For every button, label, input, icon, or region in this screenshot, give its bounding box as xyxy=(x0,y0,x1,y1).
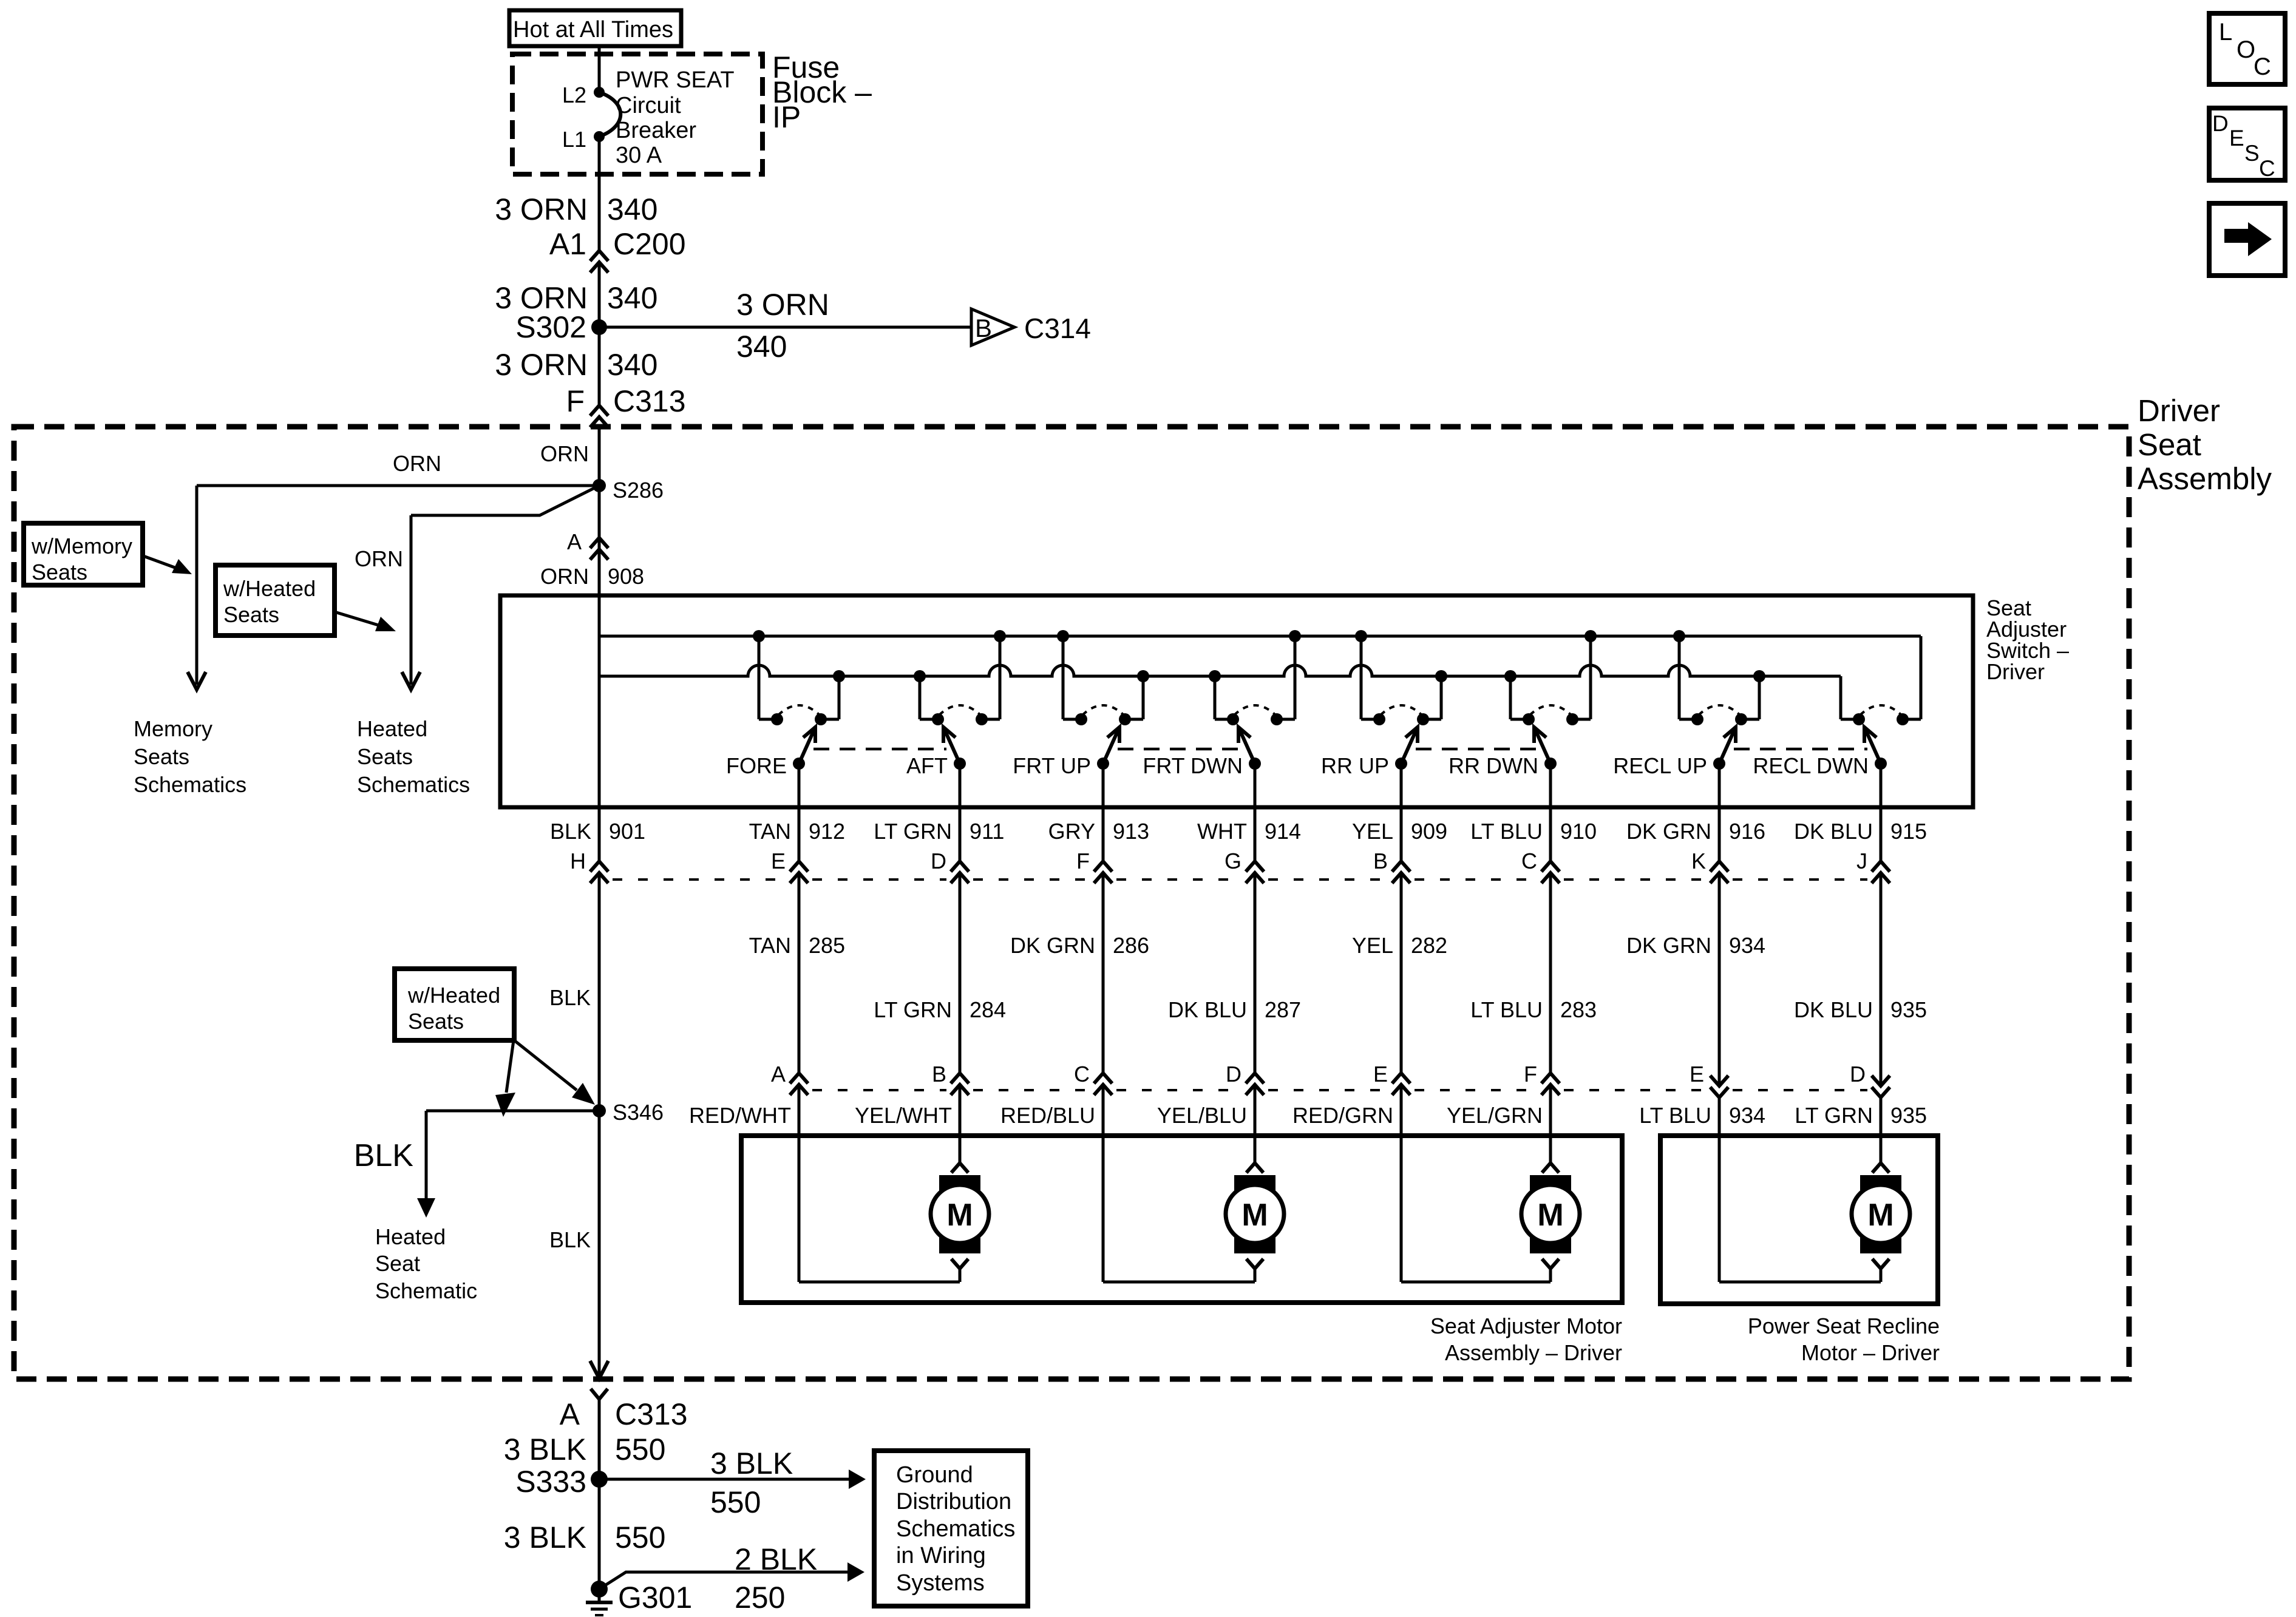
svg-text:934: 934 xyxy=(1729,1103,1765,1128)
reference label Heated Seats Schematics xyxy=(357,716,470,797)
in-line connector symbol pin J xyxy=(1872,861,1890,883)
svg-text:PWR SEAT: PWR SEAT xyxy=(616,67,735,93)
wire label DK GRN 286 xyxy=(1010,933,1149,958)
svg-text:3 BLK: 3 BLK xyxy=(710,1446,793,1480)
solid arrow to ground distribution box (lower) xyxy=(847,1562,864,1582)
connector C313 pin F label xyxy=(566,384,685,418)
connector pin E label xyxy=(771,849,786,873)
option arrow 1 from w/Heated Seats xyxy=(495,1040,515,1117)
svg-text:FORE: FORE xyxy=(726,753,787,778)
in-line connector symbol motor pin C xyxy=(1094,1073,1112,1095)
svg-text:LT GRN: LT GRN xyxy=(874,997,952,1022)
ground symbol G301 xyxy=(586,1602,613,1615)
mechanical link RECL UP-RECL DWN dashed xyxy=(1734,748,1867,751)
svg-text:3 ORN: 3 ORN xyxy=(495,348,588,382)
svg-text:915: 915 xyxy=(1890,819,1927,844)
svg-text:DK BLU: DK BLU xyxy=(1794,997,1873,1022)
svg-text:LT GRN: LT GRN xyxy=(874,819,952,844)
svg-text:283: 283 xyxy=(1560,997,1597,1022)
svg-text:550: 550 xyxy=(615,1520,665,1554)
svg-text:908: 908 xyxy=(608,564,644,589)
seat adjuster switch box outline xyxy=(500,595,1973,807)
svg-text:Seats: Seats xyxy=(32,560,87,585)
wire into motor top (seat fore/aft) xyxy=(959,1086,962,1163)
svg-text:Breaker: Breaker xyxy=(616,118,696,143)
wire YEL 909 from switch to connector xyxy=(1400,764,1403,861)
svg-text:B: B xyxy=(975,314,992,342)
svg-text:FRT UP: FRT UP xyxy=(1013,753,1091,778)
motor M (recline) xyxy=(1852,1163,1910,1282)
wire label BLK (below S346) xyxy=(549,1227,591,1252)
svg-text:M: M xyxy=(1537,1198,1563,1233)
wire label 3 ORN 340 (segment 1) xyxy=(495,192,657,226)
pin label L1 xyxy=(562,127,586,152)
svg-text:BLK: BLK xyxy=(549,1227,591,1252)
motor wire label RED/WHT xyxy=(689,1103,791,1128)
power label box: Hot at All Times xyxy=(509,10,681,46)
ground junction dot xyxy=(591,1581,608,1598)
svg-text:3 ORN: 3 ORN xyxy=(736,288,829,322)
motor connector pin A label xyxy=(771,1062,786,1086)
motor M (seat fore/aft) xyxy=(931,1163,989,1282)
recline connector pin D label xyxy=(1850,1062,1866,1086)
svg-text:901: 901 xyxy=(609,819,645,844)
motor wire label RED/BLU xyxy=(1000,1103,1095,1128)
svg-text:A: A xyxy=(560,1397,580,1431)
motor M (seat rear up/down) xyxy=(1521,1163,1580,1282)
svg-text:550: 550 xyxy=(615,1432,665,1466)
option arrow 2 from w/Heated Seats xyxy=(514,1040,595,1105)
assembly title Driver Seat Assembly xyxy=(2138,393,2272,496)
svg-text:S: S xyxy=(2244,141,2260,166)
wire label DK GRN 916 xyxy=(1626,819,1765,844)
wire DK BLU 915 from switch to connector xyxy=(1880,764,1883,861)
wire to recline connector pin D xyxy=(1880,873,1883,1086)
switch feed bus 1 (upper) xyxy=(599,636,1921,719)
svg-text:285: 285 xyxy=(809,933,845,958)
svg-text:A: A xyxy=(771,1062,786,1086)
connector C313 pin A label xyxy=(560,1397,688,1431)
svg-text:ORN: ORN xyxy=(540,564,589,589)
svg-text:Heated: Heated xyxy=(357,716,427,741)
svg-text:30 A: 30 A xyxy=(616,143,662,168)
svg-text:F: F xyxy=(566,384,585,418)
in-line connector symbol recline pin E (inverted) xyxy=(1710,1076,1728,1097)
splice label S333 xyxy=(515,1465,586,1499)
connector label C314 xyxy=(1024,313,1091,344)
open arrow to Heated Seats Schematics xyxy=(402,672,420,690)
wire label LT BLU 910 xyxy=(1470,819,1597,844)
svg-text:910: 910 xyxy=(1560,819,1597,844)
splice label S346 xyxy=(613,1100,664,1125)
in-line connector dashed line (row 1) xyxy=(613,878,1867,881)
svg-text:K: K xyxy=(1691,849,1706,873)
reference box Ground Distribution Schematics in Wiring Systems xyxy=(874,1451,1028,1606)
wire label LT GRN 284 xyxy=(874,997,1006,1022)
wire into motor circuit (recline) xyxy=(1719,1097,1881,1282)
switch contact RR UP xyxy=(1321,630,1447,778)
svg-text:E: E xyxy=(1690,1062,1704,1086)
motor connector pin D label xyxy=(1226,1062,1241,1086)
svg-text:BLK: BLK xyxy=(549,985,591,1010)
solid arrow to Heated Seat Schematic xyxy=(417,1198,435,1218)
svg-text:3 ORN: 3 ORN xyxy=(495,192,588,226)
wire to motor connector pin B xyxy=(959,873,962,1073)
wire WHT 914 from switch to connector xyxy=(1254,764,1257,861)
svg-text:287: 287 xyxy=(1265,997,1301,1022)
svg-text:550: 550 xyxy=(710,1485,761,1519)
seat adjuster motor assembly box xyxy=(741,1136,1622,1303)
svg-text:M: M xyxy=(1867,1198,1894,1233)
svg-text:Motor – Driver: Motor – Driver xyxy=(1801,1340,1940,1365)
svg-text:LT BLU: LT BLU xyxy=(1470,819,1543,844)
svg-text:RECL UP: RECL UP xyxy=(1613,753,1707,778)
wire BLK from connector H to splice S346 xyxy=(598,873,601,1111)
svg-text:RED/BLU: RED/BLU xyxy=(1000,1103,1095,1128)
icon box DESC xyxy=(2209,108,2285,181)
wire label BLK (heated stub) xyxy=(354,1138,414,1173)
switch contact AFT xyxy=(906,630,1006,778)
motor wire label RED/GRN xyxy=(1292,1103,1393,1128)
connector pin B label xyxy=(1373,849,1388,873)
fuse block dashed box xyxy=(512,54,763,174)
svg-text:Seat: Seat xyxy=(375,1251,420,1276)
svg-text:Seats: Seats xyxy=(134,744,189,769)
svg-text:L: L xyxy=(2219,19,2232,46)
wire branch S333 to ground distribution xyxy=(599,1478,849,1481)
svg-text:in Wiring: in Wiring xyxy=(896,1543,986,1568)
svg-text:S286: S286 xyxy=(613,478,664,503)
svg-text:340: 340 xyxy=(607,281,657,315)
svg-text:Driver: Driver xyxy=(1986,659,2045,684)
svg-text:J: J xyxy=(1856,849,1867,873)
connector pin C label xyxy=(1521,849,1537,873)
svg-text:C: C xyxy=(2259,156,2275,181)
svg-text:DK BLU: DK BLU xyxy=(1794,819,1873,844)
wire label YEL 282 xyxy=(1352,933,1447,958)
motor connector pin B label xyxy=(932,1062,946,1086)
connector pin K label xyxy=(1691,849,1706,873)
pin label L2 xyxy=(562,83,586,107)
wire label 3 ORN 340 (branch) xyxy=(736,288,829,364)
wire branch S286 to heated seats stub xyxy=(411,486,599,685)
svg-text:Assembly – Driver: Assembly – Driver xyxy=(1445,1340,1622,1365)
wire label ORN (memory branch) xyxy=(393,451,441,476)
svg-text:S333: S333 xyxy=(515,1465,586,1499)
svg-text:RECL DWN: RECL DWN xyxy=(1753,753,1869,778)
svg-text:L1: L1 xyxy=(562,127,586,152)
wire label 3 BLK 550 (lower) xyxy=(504,1520,666,1554)
svg-text:340: 340 xyxy=(736,330,787,364)
motor wire label YEL/GRN xyxy=(1447,1103,1543,1128)
svg-text:916: 916 xyxy=(1729,819,1765,844)
svg-text:DK GRN: DK GRN xyxy=(1010,933,1095,958)
option arrow from w/Memory Seats box xyxy=(143,556,192,574)
svg-text:TAN: TAN xyxy=(749,819,791,844)
svg-text:ORN: ORN xyxy=(540,441,589,466)
connector C313 in-line symbol (bottom, fork) xyxy=(591,1389,608,1399)
wire into motor top (seat front up/down) xyxy=(1254,1086,1257,1163)
wire from C200 to splice S302 xyxy=(598,262,601,327)
wire label TAN 285 xyxy=(749,933,845,958)
svg-text:YEL: YEL xyxy=(1352,819,1393,844)
splice S302 dot xyxy=(591,319,607,335)
svg-text:LT BLU: LT BLU xyxy=(1470,997,1543,1022)
svg-text:909: 909 xyxy=(1411,819,1447,844)
connector pin H label xyxy=(570,849,586,873)
switch contact FRT DWN xyxy=(1143,630,1301,778)
svg-text:Power Seat Recline: Power Seat Recline xyxy=(1748,1314,1940,1338)
svg-text:TAN: TAN xyxy=(749,933,791,958)
wire LT GRN 911 from switch to connector xyxy=(959,764,962,861)
wire label 3 ORN 340 (segment 2) xyxy=(495,281,657,315)
motor wire label LT GRN 935 xyxy=(1795,1103,1927,1128)
svg-text:DK GRN: DK GRN xyxy=(1626,933,1711,958)
in-line connector symbol pin G xyxy=(1246,861,1264,883)
motor wire label YEL/BLU xyxy=(1157,1103,1247,1128)
svg-text:RED/GRN: RED/GRN xyxy=(1292,1103,1393,1128)
wire from C313 to splice S333 xyxy=(598,1399,601,1479)
ground label G301 xyxy=(618,1581,692,1615)
svg-text:O: O xyxy=(2237,36,2255,63)
wire branch from S302 to C314 xyxy=(599,326,971,329)
svg-text:S346: S346 xyxy=(613,1100,664,1125)
wire label ORN (heated branch) xyxy=(355,546,403,571)
wire label DK BLU 915 xyxy=(1794,819,1927,844)
svg-text:286: 286 xyxy=(1113,933,1149,958)
svg-text:M: M xyxy=(946,1198,973,1233)
motor wire label YEL/WHT xyxy=(855,1103,952,1128)
wire to recline connector pin E xyxy=(1718,873,1721,1086)
mechanical link RR UP-RR DWN dashed xyxy=(1416,748,1537,751)
svg-text:E: E xyxy=(2229,126,2244,151)
svg-text:AFT: AFT xyxy=(906,753,948,778)
wire label DK BLU 287 xyxy=(1168,997,1301,1022)
svg-text:B: B xyxy=(1373,849,1388,873)
switch contact RECL UP xyxy=(1613,630,1765,778)
svg-text:L2: L2 xyxy=(562,83,586,107)
in-line connector symbol recline pin D (inverted) xyxy=(1872,1076,1890,1097)
svg-text:w/Heated: w/Heated xyxy=(223,576,316,601)
connector pin A label (switch feed) xyxy=(567,529,582,554)
svg-text:F: F xyxy=(1076,849,1090,873)
svg-text:Schematics: Schematics xyxy=(896,1516,1015,1542)
svg-text:340: 340 xyxy=(607,192,657,226)
svg-text:Memory: Memory xyxy=(134,716,212,741)
svg-text:A1: A1 xyxy=(549,227,586,261)
motor M (seat front up/down) xyxy=(1226,1163,1284,1282)
svg-text:Seats: Seats xyxy=(408,1009,464,1034)
svg-text:C314: C314 xyxy=(1024,313,1091,344)
svg-text:284: 284 xyxy=(970,997,1006,1022)
wire label WHT 914 xyxy=(1197,819,1301,844)
wire LT BLU 910 from switch to connector xyxy=(1549,764,1552,861)
recline connector pin E label xyxy=(1690,1062,1704,1086)
wire branch S286 to memory seats stub xyxy=(197,486,599,685)
wire label 3 BLK 550 (branch) xyxy=(710,1446,793,1519)
Driver Seat Assembly dashed boundary xyxy=(14,427,2129,1379)
open arrow to Memory Seats Schematics xyxy=(188,672,206,690)
svg-text:IP: IP xyxy=(772,100,801,134)
wire to motor connector pin E xyxy=(1400,873,1403,1073)
svg-text:RED/WHT: RED/WHT xyxy=(689,1103,791,1128)
wire from S302 to connector C313 xyxy=(598,327,601,405)
option box w/Memory Seats xyxy=(24,523,143,585)
wire label LT BLU 283 xyxy=(1470,997,1597,1022)
connector C313 in-line symbol (top) xyxy=(590,405,608,427)
option box w/Heated Seats (upper) xyxy=(216,565,335,636)
svg-text:A: A xyxy=(567,529,582,554)
wire into motor top (seat rear up/down) xyxy=(1549,1086,1552,1163)
svg-text:912: 912 xyxy=(809,819,845,844)
wire label LT GRN 911 xyxy=(874,819,1004,844)
svg-text:D: D xyxy=(2212,111,2229,136)
svg-text:YEL/WHT: YEL/WHT xyxy=(855,1103,952,1128)
breaker value label PWR SEAT Circuit Breaker 30 A xyxy=(616,67,735,168)
svg-text:Seat: Seat xyxy=(2138,427,2201,462)
svg-text:C: C xyxy=(1521,849,1537,873)
svg-text:D: D xyxy=(1226,1062,1241,1086)
wire label GRY 913 xyxy=(1048,819,1149,844)
svg-text:Heated: Heated xyxy=(375,1224,446,1249)
switch contact RR DWN xyxy=(1449,630,1597,778)
wire to motor connector pin D xyxy=(1254,873,1257,1073)
in-line connector symbol pin D xyxy=(951,861,969,883)
svg-text:G301: G301 xyxy=(618,1581,692,1615)
open arrow at assembly border (exit) xyxy=(590,1361,608,1378)
wire label DK GRN 934 xyxy=(1626,933,1765,958)
in-line connector symbol pin K xyxy=(1710,861,1728,883)
wire label YEL 909 xyxy=(1352,819,1447,844)
connector C200 pin A1 label xyxy=(549,227,686,261)
svg-text:w/Memory: w/Memory xyxy=(31,534,132,558)
connector pin F label xyxy=(1076,849,1090,873)
svg-text:H: H xyxy=(570,849,586,873)
connector pin G label xyxy=(1224,849,1241,873)
wire label BLK 901 xyxy=(550,819,645,844)
splice S346 dot xyxy=(593,1104,606,1117)
motor connector pin E label xyxy=(1373,1062,1388,1086)
wire to motor connector pin A xyxy=(798,873,801,1073)
svg-text:M: M xyxy=(1241,1198,1268,1233)
svg-text:ORN: ORN xyxy=(393,451,441,476)
in-line connector symbol motor pin F xyxy=(1541,1073,1560,1095)
svg-text:C313: C313 xyxy=(615,1397,688,1431)
svg-text:S302: S302 xyxy=(515,310,586,344)
wire branch S346 to heated seat schematic xyxy=(426,1111,599,1199)
svg-text:Schematics: Schematics xyxy=(357,772,470,797)
svg-text:D: D xyxy=(931,849,946,873)
mechanical link FORE-AFT dashed xyxy=(813,748,946,751)
svg-text:DK GRN: DK GRN xyxy=(1626,819,1711,844)
icon box arrow xyxy=(2209,203,2285,276)
svg-text:B: B xyxy=(932,1062,946,1086)
splice S286 dot xyxy=(593,479,606,492)
svg-text:E: E xyxy=(1373,1062,1388,1086)
svg-text:w/Heated: w/Heated xyxy=(407,983,500,1008)
svg-text:F: F xyxy=(1524,1062,1537,1086)
wire label DK BLU 935 xyxy=(1794,997,1927,1022)
icon box LOC xyxy=(2209,13,2285,84)
svg-text:914: 914 xyxy=(1265,819,1301,844)
wire label 2 BLK 250 xyxy=(735,1542,817,1615)
svg-text:935: 935 xyxy=(1890,1103,1927,1128)
motor box label Power Seat Recline Motor - Driver xyxy=(1748,1314,1940,1365)
wire label 3 ORN 340 (segment 3) xyxy=(495,348,657,382)
svg-text:Hot at All Times: Hot at All Times xyxy=(513,17,673,42)
reference label Heated Seat Schematic xyxy=(375,1224,477,1303)
motor wire label LT BLU 934 xyxy=(1639,1103,1765,1128)
in-line connector symbol motor pin A xyxy=(790,1073,808,1095)
svg-text:E: E xyxy=(771,849,786,873)
in-line connector dashed line (row 2) xyxy=(812,1089,1867,1091)
in-line connector symbol pin B xyxy=(1392,861,1410,883)
svg-text:911: 911 xyxy=(970,819,1004,844)
in-line connector symbol motor pin E xyxy=(1392,1073,1410,1095)
connector pin J label xyxy=(1856,849,1867,873)
svg-text:YEL: YEL xyxy=(1352,933,1393,958)
svg-text:2 BLK: 2 BLK xyxy=(735,1542,817,1576)
breaker pin L2 dot xyxy=(594,87,605,98)
in-line connector symbol motor pin B xyxy=(951,1073,969,1095)
svg-text:934: 934 xyxy=(1729,933,1765,958)
svg-text:Schematics: Schematics xyxy=(134,772,246,797)
wire from S333 to ground G301 xyxy=(598,1479,601,1601)
circuit breaker CB1 element xyxy=(599,92,620,137)
svg-text:FRT DWN: FRT DWN xyxy=(1143,753,1243,778)
svg-text:DK BLU: DK BLU xyxy=(1168,997,1247,1022)
splice S333 dot xyxy=(591,1471,608,1488)
svg-text:935: 935 xyxy=(1890,997,1927,1022)
svg-text:C: C xyxy=(2254,53,2271,80)
motor box label Seat Adjuster Motor Assembly - Driver xyxy=(1430,1314,1622,1365)
fuse block name label Fuse Block - IP xyxy=(772,50,872,134)
svg-text:D: D xyxy=(1850,1062,1866,1086)
in-line connector symbol pin H xyxy=(590,861,608,883)
svg-text:Seats: Seats xyxy=(357,744,413,769)
switch contact RECL DWN xyxy=(1753,705,1921,778)
option arrow from w/Heated Seats box xyxy=(335,612,396,631)
wire label BLK (above S346) xyxy=(549,985,591,1010)
in-line connector symbol (pin A) xyxy=(590,538,608,560)
connector C200 in-line symbol xyxy=(590,251,608,273)
connector pin D label xyxy=(931,849,946,873)
svg-text:Assembly: Assembly xyxy=(2138,461,2272,496)
in-line connector symbol pin F xyxy=(1094,861,1112,883)
wire into motor circuit (seat fore/aft) xyxy=(799,1086,960,1282)
motor connector pin C label xyxy=(1074,1062,1090,1086)
svg-text:C200: C200 xyxy=(613,227,686,261)
wire into motor circuit (seat front up/down) xyxy=(1103,1086,1255,1282)
svg-text:Seats: Seats xyxy=(223,602,279,627)
wire label ORN (above S286) xyxy=(540,441,589,466)
in-line connector symbol motor pin D xyxy=(1246,1073,1264,1095)
switch contact FORE xyxy=(726,630,845,778)
svg-text:LT BLU: LT BLU xyxy=(1639,1103,1711,1128)
motor connector pin F label xyxy=(1524,1062,1537,1086)
svg-text:Schematic: Schematic xyxy=(375,1278,477,1303)
wire label TAN 912 xyxy=(749,819,845,844)
svg-text:Distribution: Distribution xyxy=(896,1489,1011,1514)
solid arrow to ground distribution box (upper) xyxy=(849,1470,866,1489)
wire to motor connector pin F xyxy=(1549,873,1552,1073)
off-page connector C314 triangle with pin B xyxy=(971,309,1014,345)
option box w/Heated Seats (lower) xyxy=(395,969,514,1040)
wire into motor circuit (seat rear up/down) xyxy=(1401,1086,1550,1282)
svg-text:C: C xyxy=(1074,1062,1090,1086)
svg-text:Ground: Ground xyxy=(896,1462,973,1488)
svg-text:250: 250 xyxy=(735,1581,785,1615)
